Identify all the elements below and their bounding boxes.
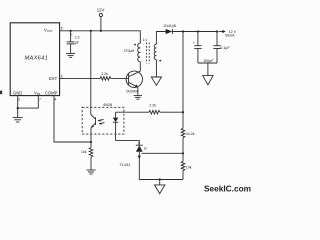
svg-text:+: + bbox=[71, 33, 73, 37]
light arrows bbox=[98, 120, 104, 121]
wire TL431 ref to divider bbox=[142, 152, 184, 154]
svg-text:1N4148: 1N4148 bbox=[163, 24, 176, 28]
node cap tap bbox=[70, 30, 72, 32]
node C2 tap bbox=[197, 30, 199, 32]
ground open triangle bottom bbox=[155, 185, 165, 194]
transformer T1 primary 270uH bbox=[138, 43, 141, 61]
wire opto phototransistor collector to rail bbox=[90, 31, 92, 115]
resistor R5 10k bbox=[89, 148, 93, 158]
wire bottom rail bbox=[139, 179, 183, 181]
ground under C1 bbox=[66, 52, 75, 54]
svg-text:7: 7 bbox=[39, 98, 41, 102]
svg-text:10k: 10k bbox=[81, 150, 87, 154]
svg-text:R: R bbox=[144, 147, 147, 151]
transformer core bbox=[145, 43, 147, 64]
wire secondary top to diode bbox=[156, 32, 165, 45]
svg-text:270µH: 270µH bbox=[124, 49, 135, 53]
node 2.2k junction bbox=[182, 111, 184, 113]
wire cap bottoms bbox=[198, 62, 217, 64]
svg-text:2.2k: 2.2k bbox=[101, 72, 108, 76]
svg-text:µF: µF bbox=[75, 41, 80, 45]
svg-text:5: 5 bbox=[61, 27, 63, 31]
wire emitter to R5 bbox=[90, 134, 92, 148]
node ground tap bbox=[159, 178, 161, 180]
transformer T1 secondary bbox=[154, 44, 156, 59]
phototransistor of U2 bbox=[95, 117, 97, 125]
svg-text:10k: 10k bbox=[186, 166, 192, 170]
node divider junction bbox=[182, 152, 184, 154]
wire 12V rail from VOUT pin to transformer primary bbox=[60, 31, 141, 44]
svg-text:0.1µF: 0.1µF bbox=[220, 46, 230, 50]
transistor Q1 2N3904 bbox=[126, 71, 142, 87]
phase dot secondary bbox=[159, 60, 161, 62]
svg-text:3: 3 bbox=[18, 98, 20, 102]
capacitor C2 100uF bbox=[197, 32, 199, 46]
ground open triangle output bbox=[203, 76, 213, 85]
wire LED cathode to TL431 bbox=[116, 141, 140, 145]
scan speck left edge bbox=[0, 91, 2, 95]
svg-text:SeekIC.com: SeekIC.com bbox=[204, 183, 251, 193]
resistor R4 10k bbox=[181, 161, 185, 171]
node feedback tap bbox=[182, 30, 184, 32]
LED of U2 bbox=[115, 112, 117, 117]
svg-text:2N3904: 2N3904 bbox=[126, 89, 139, 93]
svg-text:4: 4 bbox=[55, 98, 57, 102]
wire COMP pin down and right bbox=[54, 96, 91, 142]
wire LED top to R2 bbox=[116, 111, 149, 113]
wire R1 to Q1 base bbox=[111, 77, 129, 79]
diode D1 1N4148 bbox=[166, 29, 173, 34]
wire VFB to GND bbox=[18, 96, 39, 109]
ground open triangle under secondary bbox=[151, 77, 161, 85]
ground under Q1 emitter bbox=[134, 95, 142, 97]
wire GND pin to ground bbox=[17, 96, 19, 118]
resistor R1 2.2k bbox=[100, 77, 111, 81]
IC U1 MAX641 box bbox=[10, 23, 59, 96]
ground under R5 bbox=[87, 169, 96, 171]
svg-text:VOUT: VOUT bbox=[44, 27, 53, 33]
svg-text:44.2k: 44.2k bbox=[186, 132, 195, 136]
svg-text:MAX641: MAX641 bbox=[25, 56, 49, 62]
wire secondary bottom to ground bbox=[155, 60, 157, 77]
wire EXT pin to R1 bbox=[60, 77, 100, 79]
capacitor C1 2.2uF bbox=[70, 31, 72, 42]
svg-text:1:1: 1:1 bbox=[143, 38, 148, 42]
capacitor C3 0.1uF bbox=[216, 32, 218, 46]
ground under GND pin bbox=[13, 117, 23, 119]
resistor R2 2.2k bbox=[149, 110, 160, 114]
svg-text:50mA: 50mA bbox=[225, 34, 235, 38]
output arrow bbox=[219, 31, 223, 33]
node emitter junction bbox=[90, 141, 92, 143]
svg-text:VFB: VFB bbox=[34, 90, 41, 96]
svg-text:GND: GND bbox=[13, 90, 22, 95]
svg-text:EXT: EXT bbox=[49, 76, 58, 81]
node opto collector tap bbox=[90, 30, 92, 32]
svg-text:TL431: TL431 bbox=[120, 163, 131, 167]
node C3 tap bbox=[216, 30, 218, 32]
svg-text:12V: 12V bbox=[97, 7, 105, 12]
svg-text:4N28: 4N28 bbox=[103, 103, 112, 107]
svg-text:+: + bbox=[193, 41, 195, 45]
node 12V supply tap bbox=[100, 30, 102, 32]
phase dot primary bbox=[134, 44, 136, 46]
node gnd junction bbox=[17, 107, 19, 109]
12V supply terminal bbox=[99, 13, 102, 16]
resistor R3 44.2k bbox=[181, 128, 185, 138]
optocoupler U2 4N28 dashed box bbox=[82, 107, 124, 134]
svg-text:2.2: 2.2 bbox=[75, 36, 80, 40]
wire feedback line bbox=[182, 32, 184, 129]
svg-text:COMP: COMP bbox=[45, 90, 58, 95]
wire diode to output bbox=[173, 31, 218, 33]
svg-text:2.2k: 2.2k bbox=[149, 103, 156, 107]
